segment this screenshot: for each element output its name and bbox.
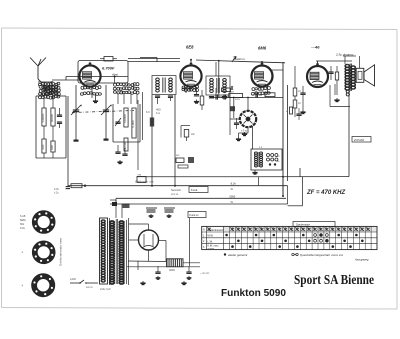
value label 400 [156,108,161,116]
wire V4 top [316,61,352,63]
vertical note Drehkond [59,237,63,265]
svg-text:3: 3 [203,246,205,249]
svg-text:xxxxxx: xxxxxx [208,248,215,250]
label -46 [310,45,320,50]
rectifier tube V5 [139,230,159,250]
label Abstimm [232,57,246,61]
svg-text:N: N [203,229,205,232]
wire mains to transformer [116,198,122,218]
resistor R15 [265,93,275,97]
svg-text:5x: 5x [231,188,234,191]
svg-text:xxx: xxx [138,174,142,177]
svg-text:-y: -y [21,284,24,287]
svg-text:x.x: x.x [259,146,263,149]
wire output down [300,91,349,177]
wire left bracket [288,177,303,206]
choke CH1 [167,259,184,272]
wire V1 grid scribbles [80,86,101,96]
svg-text:M.W.: M.W. [208,234,214,238]
svg-text:2: 2 [203,240,205,243]
wire top box line [128,59,180,62]
svg-text:0,0000: 0,0000 [123,114,127,123]
svg-text:xxx: xxx [176,155,180,157]
svg-text:1: 1 [203,234,205,237]
wire through V1 [66,76,128,81]
svg-text:66x: 66x [20,222,25,226]
oscillator box K2 [113,104,140,142]
resistor R2 00000 [50,108,55,126]
label box C.700F [78,61,128,84]
ground below socket box [252,170,257,174]
svg-text:6M6: 6M6 [258,46,267,51]
tube V3 [252,62,273,87]
label 220V [100,287,111,291]
svg-text:6E8: 6E8 [186,45,194,50]
resistor R11 [293,88,301,96]
variable capacitor CV2 [101,85,112,139]
wire T1 secondary leads [158,97,171,104]
svg-text:K.W. xxxx: K.W. xxxx [208,244,220,247]
wire speaker field [343,56,360,68]
svg-text:-x: -x [21,251,24,254]
wire coil box interconnect [44,96,53,158]
svg-text:x.2x: x.2x [54,192,59,195]
IF transformer T1 [152,76,176,98]
svg-text:wieder getrennt: wieder getrennt [228,253,248,257]
table footnote left [224,253,248,257]
capacitor C9 electrolytic [164,208,175,217]
wire mains line [110,203,288,205]
coil box K1 outline [36,96,66,158]
speaker LS [356,65,374,86]
resistor R5 0.0000 [123,108,128,127]
capacitor C13 [252,92,262,97]
wire right col [295,66,303,117]
svg-text:2x0v 1x0: 2x0v 1x0 [100,287,111,291]
socket detail box U1 [251,146,282,170]
wire B+ rail bottom [127,263,200,267]
ground G5 [300,110,305,114]
tube socket S2 view [34,243,53,262]
capacitor C10 filter [155,266,160,279]
label 2.5y dynamo [335,53,354,57]
svg-text:x0x: x0x [191,133,196,136]
svg-text:000: 000 [41,144,45,149]
socket S3 label [21,284,24,287]
svg-text:Funkton 5090: Funkton 5090 [221,287,286,299]
wire heater left [54,186,70,195]
resistor R1 0.0000 [41,108,46,126]
svg-text:0,0000: 0,0000 [41,113,45,122]
svg-text:xxx xx: xxx xx [171,193,179,196]
svg-text:6.9x: 6.9x [20,226,26,230]
label fuse [0,0,1,1]
antenna [30,58,46,84]
component cluster mid [176,155,194,168]
ground below V1 [93,99,98,103]
svg-text:6.700F: 6.700F [102,66,115,71]
socket box labels [277,156,280,163]
svg-text:xxx xx: xxx xx [86,286,93,289]
resistor R7 0.000 [123,138,128,151]
svg-text:x0: x0 [277,161,280,163]
coil connection table [202,226,377,250]
svg-text:ZF = 470 KHZ: ZF = 470 KHZ [306,190,346,196]
capacitor C7 [328,66,333,80]
resistor R9 on AVC [146,110,154,127]
svg-text:0000: 0000 [229,194,235,198]
resistor R10 [229,91,243,98]
resistor R14 [286,107,293,114]
capacitor C2 trimmer [115,118,121,126]
power transformer T4 [100,218,129,285]
svg-text:5x: 5x [231,201,234,204]
wire antenna to input coil [38,80,79,86]
coil L1 input assembly [38,82,60,99]
junction arrow [232,57,236,63]
svg-text:6,3v: 6,3v [231,182,237,186]
ground G4 [242,132,247,136]
capacitor C12 [296,108,301,120]
resistor R4 000 [50,141,55,152]
resistor R8 [200,90,204,110]
svg-text:Drehkondensator xxxx: Drehkondensator xxxx [59,237,63,265]
wire top bus A [196,60,285,63]
ground below oscillator [117,160,122,164]
title Funkton 5090 [221,287,286,299]
svg-text:Sport SA Bienne: Sport SA Bienne [294,272,374,287]
capacitor CV1 bottom plate [74,140,79,142]
wire heater 6.3V [137,176,349,178]
output transformer T3 [345,64,355,97]
label box wave [352,137,371,143]
table footnote right [292,253,369,262]
tube socket S1 view [34,212,53,231]
svg-text:x0: x0 [298,102,301,105]
resistor R13 [335,66,338,84]
wire box to ground bus [67,96,69,186]
resistor R6 0.000 [131,108,136,138]
svg-text:0,000: 0,000 [131,120,135,127]
svg-text:0,000: 0,000 [123,142,127,149]
fuse F1 [71,184,86,188]
wire V4 box corner [330,85,350,107]
tuning eye E1 [240,111,256,133]
component dark on AVC [230,106,235,111]
variable capacitor CV1 [71,85,82,140]
wire V3 bottom parts [251,87,270,96]
IF transformer T2 [206,76,230,98]
wire eye connections [210,61,283,149]
resistor R12 [293,100,301,108]
capacitor C8 electrolytic [146,208,157,217]
junction dots mid [151,176,284,197]
label ZF = 470 KHZ [306,190,346,196]
svg-text:x 0.xx: x 0.xx [241,130,248,133]
table header box [293,222,335,227]
wire V1 cathode down [92,87,96,99]
note mark [200,271,210,275]
ground G8 [181,281,186,285]
label 6E8 [186,45,194,50]
label Netzschalter [171,188,182,196]
svg-text:6.0: 6.0 [146,110,150,114]
ground G3 [236,133,248,141]
svg-text:Anzugsweg: Anzugsweg [354,258,369,262]
capacitor C6 [300,86,305,99]
wire osc tap [114,77,116,84]
tube socket S3 view [33,275,53,295]
svg-text:Funk.xx: Funk.xx [190,213,200,217]
svg-text:00000: 00000 [50,114,54,122]
tuning gang dashed link [72,111,134,113]
svg-text:6.A8: 6.A8 [20,214,26,218]
svg-text:~ xx'-xx': ~ xx'-xx' [200,271,210,275]
svg-text:—46: —46 [310,45,320,50]
wire mid link [138,92,143,170]
trimmer cap on box top [100,57,117,62]
wire V3 column [216,62,230,135]
wire V2 cathode parts [182,85,199,103]
svg-text:400: 400 [156,108,161,112]
wire detector line [174,95,176,186]
svg-text:1xx: 1xx [156,111,161,115]
wire heater 4V [116,194,286,204]
wire heater 2 [70,182,288,191]
svg-text:Netzsch.: Netzsch. [171,188,182,192]
label 6V6 [258,46,267,51]
wire heater drop [282,177,284,196]
resistor R16 [181,126,196,141]
socket S1 labels [20,214,27,230]
tube V1 [79,62,100,87]
ground G7 [140,281,145,285]
svg-text:Spulensatz: Spulensatz [296,223,310,227]
label Wellensch [135,180,154,184]
ground G6 [334,84,339,102]
svg-text:Zt.Politz: Zt.Politz [353,138,365,142]
capacitor CV2 bottom plate [104,139,109,141]
svg-text:000: 000 [50,145,54,150]
capacitor C1 [57,108,62,128]
resistor R3 000 [41,139,46,153]
capacitor C11 filter [186,266,191,279]
wire AVC line [151,95,153,186]
wire V3 anode drop [262,62,283,70]
wire B+ bus 1 [282,62,284,196]
svg-text:xxxx: xxxx [235,98,241,101]
component box W1 [137,174,146,183]
capacitor C14 left of eye [234,118,239,129]
value label 6.700F [102,66,115,71]
switch S2 detail [70,278,98,289]
wire rectifier leads [128,218,190,270]
capacitor C3 [115,145,127,155]
svg-text:x0: x0 [277,156,280,158]
label box small left [188,212,206,218]
tube V2 [180,62,201,87]
wire heater vertical right [259,177,288,204]
wire V2 top [140,58,192,63]
oscillator coil L2 [113,83,139,104]
label box Funkensch [189,187,208,193]
svg-text:Funk.: Funk. [191,188,198,192]
capacitor C5 row [210,94,230,99]
value label Abst [111,73,119,77]
resistor R17 below V3 [222,86,241,101]
svg-text:0000: 0000 [169,268,175,272]
socket S2 label [21,251,24,254]
wire B+ bus 2 [287,85,289,181]
svg-text:Quecksilber längsschalt. xxxxx: Quecksilber längsschalt. xxxxx xxx [300,253,344,257]
svg-text:Wellenbereich: Wellenbereich [208,228,225,232]
svg-text:L.W.: L.W. [208,239,213,243]
svg-text:Abstimm.: Abstimm. [232,57,246,61]
svg-text:1x0/6: 1x0/6 [70,278,77,281]
switch S1 [110,200,130,208]
tube V4 [307,63,328,88]
title Sport SA Bienne [294,272,374,287]
svg-text:6E8x: 6E8x [20,218,27,222]
